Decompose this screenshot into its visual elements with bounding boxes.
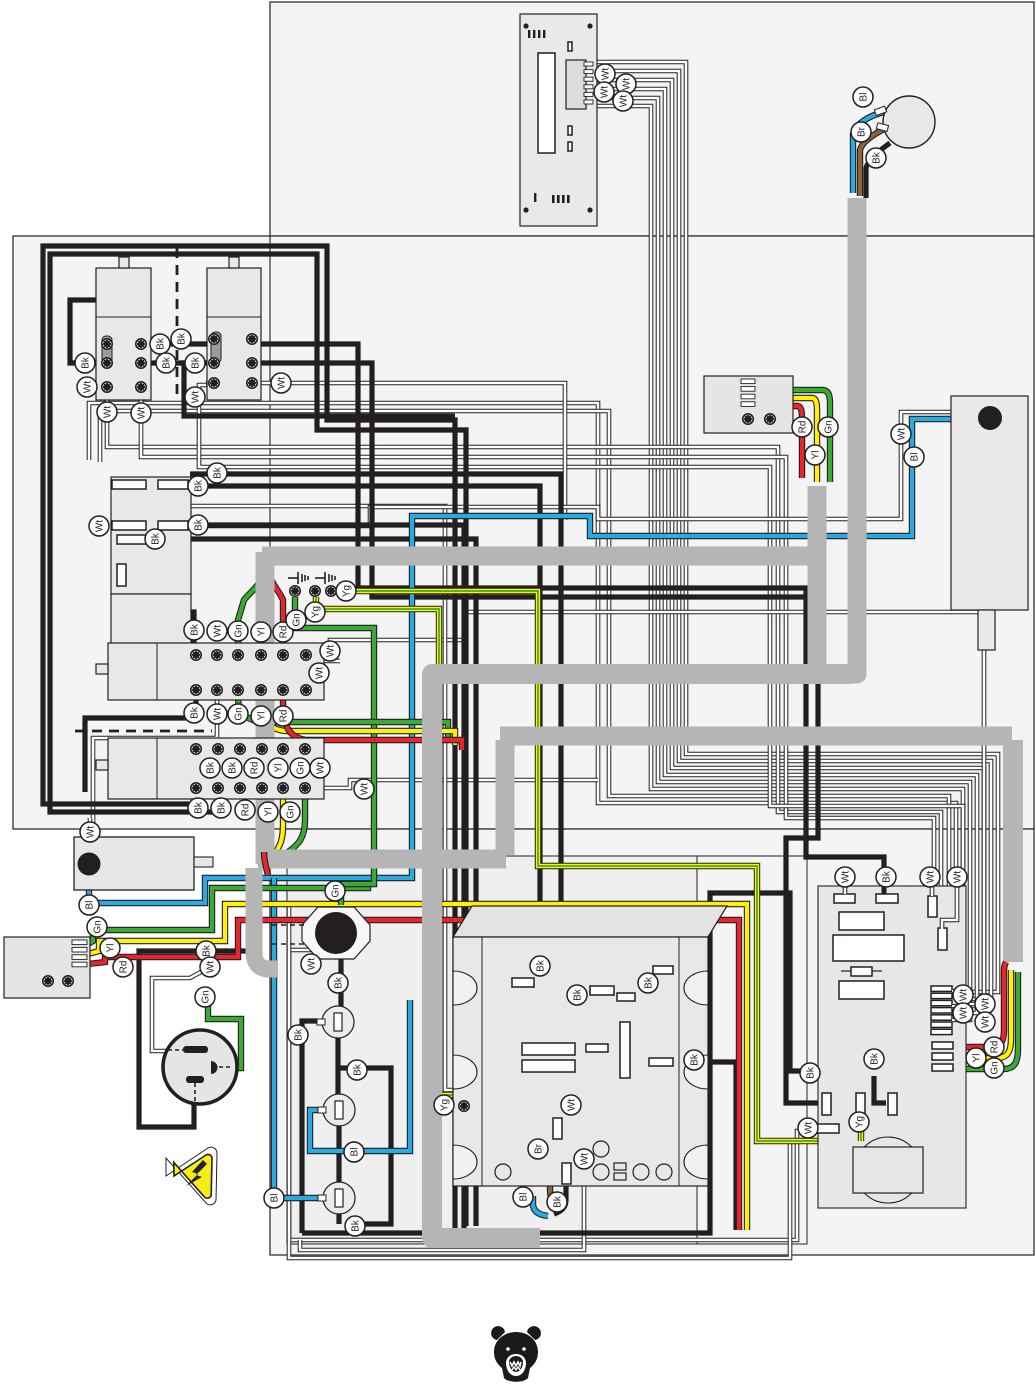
svg-text:Yg: Yg: [310, 606, 321, 618]
gray cable V1 left vertical: [256, 552, 275, 864]
svg-text:Bl: Bl: [858, 93, 869, 102]
power board pin mid: [888, 1093, 897, 1115]
strip terminal 2: [310, 586, 320, 596]
gray cable H1 horizontal: [262, 547, 812, 566]
lamp L3: [323, 1182, 355, 1214]
svg-text:Bk: Bk: [193, 479, 204, 492]
green wire timer2 link: [302, 753, 308, 784]
svg-text:Br: Br: [856, 126, 867, 137]
capacitor symbol 2: [315, 572, 335, 584]
black wire relay Ra left hook: [70, 300, 107, 363]
svg-text:Bk: Bk: [689, 1053, 700, 1066]
power board wt left wire: [800, 1126, 816, 1131]
relay R-b body: [207, 268, 261, 400]
control board small slot 1: [568, 42, 572, 51]
svg-text:Bk: Bk: [333, 976, 344, 989]
timer T1 terminal bottom 6: [301, 685, 311, 695]
drive motor box stub: [194, 857, 213, 867]
relay R-a body: [96, 268, 151, 400]
control board small slot 3: [568, 142, 572, 151]
relay R-b slot: [211, 332, 221, 363]
svg-text:Gn: Gn: [233, 624, 244, 637]
svg-text:Wt: Wt: [82, 381, 93, 393]
red wire timer2 down to cable: [262, 792, 264, 852]
power board white stub bk: [882, 879, 887, 894]
white wire from control board pin 5: [592, 98, 970, 1020]
svg-text:Bk: Bk: [572, 988, 583, 1001]
svg-text:Bk: Bk: [227, 761, 238, 774]
control board bottom ticks: [552, 195, 555, 203]
motor blue lead: [853, 112, 884, 193]
black wire relay Rb lower: [206, 380, 214, 385]
control board big slot: [538, 53, 555, 153]
motor black lead: [866, 143, 890, 198]
svg-text:Br: Br: [533, 1143, 544, 1154]
svg-text:Wt: Wt: [952, 871, 963, 883]
svg-text:Wt: Wt: [803, 1122, 814, 1134]
white wire hexagon to bottom loop then PCB pin: [289, 950, 820, 1240]
connector CN3 pins: [72, 940, 87, 945]
dryer box scallop right 2: [684, 1055, 708, 1089]
svg-text:Rd: Rd: [278, 710, 289, 723]
dryer terminal bar d: [653, 966, 673, 974]
svg-text:Wt: Wt: [840, 871, 851, 883]
timer T1 terminal bottom 1: [191, 685, 201, 695]
region divider x=270: [269, 236, 271, 829]
control board screw 1: [523, 23, 528, 28]
dryer circle 1: [593, 1141, 609, 1157]
dryer terminal bar a: [512, 978, 534, 987]
timer T1 terminal top 3: [233, 650, 243, 660]
timer T2 left stub: [96, 760, 108, 770]
control board tick marks: [528, 30, 530, 38]
green wire plug: [208, 990, 241, 1068]
timer T2 terminal bottom 5: [278, 783, 288, 793]
timer T2 terminal bottom 2: [213, 783, 223, 793]
svg-text:Bl: Bl: [269, 1194, 280, 1203]
red wire fan v4: [1004, 962, 1006, 970]
gray cable elbow to motor: [813, 198, 857, 674]
svg-text:Gn: Gn: [989, 1061, 1000, 1074]
yellow-green wire B to dryer terminal: [316, 597, 458, 1095]
power board rect 2: [833, 935, 904, 961]
svg-text:Rd: Rd: [240, 804, 251, 817]
lamp L2 stub: [318, 1107, 326, 1113]
white wire t1 right lower: [306, 661, 340, 690]
dryer box front face: [453, 937, 708, 1186]
power board connector strip lower: [932, 1042, 953, 1049]
svg-text:Gn: Gn: [823, 420, 834, 433]
gray cable H-mid to V6: [432, 674, 852, 1238]
svg-text:Gn: Gn: [330, 884, 341, 897]
timer T2 terminal bottom 1: [191, 783, 201, 793]
power plug dash right: [219, 1066, 233, 1068]
timer T1 terminal top 2: [212, 650, 222, 660]
power board yg pin wire: [858, 1115, 864, 1141]
timer T2 body: [108, 738, 324, 799]
dryer box inner right line: [678, 937, 680, 1186]
white wire relay Ra coil: [107, 392, 941, 1020]
power board pin left 2: [856, 1093, 865, 1115]
red wire fan into cable V1: [264, 852, 268, 875]
white wire t1 right upper: [306, 612, 984, 1004]
timer T1 left stub: [96, 664, 108, 674]
control board bottom tick: [534, 193, 536, 202]
power board wt wire 2: [930, 887, 935, 896]
svg-text:Bk: Bk: [176, 332, 187, 345]
svg-text:Bk: Bk: [150, 532, 161, 545]
white wire from control board pin 4: [592, 89, 977, 1013]
relay R-b terminal 3: [209, 358, 219, 368]
lamp L3 stub: [318, 1195, 326, 1201]
control board screw 3: [523, 207, 528, 212]
svg-text:Bk: Bk: [205, 761, 216, 774]
white wire timer1 bottom to motor box: [93, 690, 217, 834]
dryer bottom circle 1: [495, 1164, 511, 1180]
relay R-a terminal 3: [102, 358, 112, 368]
connector CN3 terminal 1: [43, 976, 53, 986]
lamp L2: [323, 1094, 355, 1126]
strip terminal 3: [326, 586, 336, 596]
svg-text:Wt: Wt: [102, 406, 113, 418]
power plug dash left: [168, 1049, 183, 1051]
timer T2 terminal bottom 6: [300, 783, 310, 793]
red wire PCB strip: [950, 970, 1004, 1047]
timer T1 terminal bottom 3: [233, 685, 243, 695]
switch lower body: [111, 594, 191, 660]
svg-text:Bk: Bk: [193, 801, 204, 814]
svg-text:Wt: Wt: [306, 958, 317, 970]
black wire relay Ra to PCB bar: [141, 344, 884, 899]
relay R-a divider: [96, 316, 151, 318]
black wire lamp1 to lamp2: [335, 1036, 340, 1094]
dryer box scallop left 3: [453, 1145, 477, 1179]
white wire relay Rb right: [252, 383, 565, 520]
power plug body: [163, 1030, 237, 1104]
green wire strip to hexagon: [295, 597, 374, 905]
svg-text:Gn: Gn: [92, 920, 103, 933]
svg-text:Gn: Gn: [285, 805, 296, 818]
black wire switch top to dryer bar b: [190, 474, 592, 990]
black wire dryer box inner top: [528, 940, 533, 983]
blue wire branch to lamp3: [274, 878, 323, 1198]
svg-text:Yg: Yg: [439, 1099, 450, 1111]
yellow wire connector staircase: [88, 904, 747, 1230]
timer T1 terminal bottom 5: [278, 685, 288, 695]
timer T1 divider: [156, 643, 158, 700]
power board black jog: [874, 1076, 886, 1103]
red wire timer1 fan: [268, 572, 283, 648]
svg-text:Bk: Bk: [869, 1052, 880, 1065]
lamp L1 stub: [317, 1019, 325, 1025]
timer T1 terminal bottom 4: [256, 685, 266, 695]
dryer bottom circle 2: [593, 1164, 609, 1180]
green wire connector to hexagon staircase: [88, 884, 368, 944]
green wire timer1 fan: [238, 572, 262, 648]
relay R-b terminal 1: [209, 334, 219, 344]
svg-text:Gn: Gn: [233, 707, 244, 720]
motor lead stub 1: [874, 106, 886, 115]
svg-text:Yl: Yl: [273, 764, 284, 773]
power board rect 1: [839, 912, 884, 930]
region box bottom: [270, 829, 1034, 1255]
timer T2 terminal bottom 4: [257, 783, 267, 793]
dryer terminal bar b: [590, 986, 614, 995]
connector CN4 body: [704, 376, 793, 433]
black wire timer1 top left: [152, 568, 194, 655]
power plug dash bottom: [194, 1083, 196, 1103]
power board resistor: [841, 967, 882, 976]
rear thermostat dot: [978, 406, 1002, 430]
svg-text:Wt: Wt: [85, 826, 96, 838]
white wire loop from relay area 2: [100, 411, 949, 1027]
svg-text:Wt: Wt: [980, 1016, 991, 1028]
black wire big loop B: [50, 254, 466, 1226]
black wire lamp1 left down: [302, 1021, 317, 1233]
svg-text:Wt: Wt: [980, 998, 991, 1010]
gray cable V5: [496, 740, 515, 855]
relay R-a slot: [102, 336, 112, 367]
blue wire main: [89, 419, 978, 903]
svg-text:Bk: Bk: [552, 1195, 563, 1208]
relay R-a terminal 5: [102, 382, 112, 392]
white wire relay Rb: [199, 385, 963, 1041]
dryer bottom circle 3: [633, 1164, 649, 1180]
svg-text:Wt: Wt: [136, 407, 147, 419]
white wire from control board pin 2: [592, 71, 991, 999]
svg-text:Bk: Bk: [871, 151, 882, 164]
black wire bottom run to PCB pins: [302, 893, 822, 1233]
black wire plug: [139, 928, 252, 1127]
relay R-a terminal 1: [102, 339, 112, 349]
black wire switch bottom long down: [148, 539, 476, 1226]
relay R-b terminal 2: [247, 334, 257, 344]
timer T1 terminal top 5: [278, 650, 288, 660]
control board screw 4: [587, 207, 592, 212]
svg-text:Wt: Wt: [566, 1099, 577, 1111]
svg-text:Bk: Bk: [350, 1219, 361, 1232]
relay R-a terminal 2: [136, 339, 146, 349]
relay R-b terminal 4: [247, 358, 257, 368]
svg-text:Gn: Gn: [200, 990, 211, 1003]
svg-text:Wt: Wt: [599, 86, 610, 98]
connector CN3 body: [4, 937, 90, 998]
relay R-b terminal 5: [209, 378, 219, 388]
black wire lamp2 to lamp3: [336, 1126, 341, 1182]
control board screw 2: [587, 23, 592, 28]
black wire hexagon to lamp1: [338, 957, 343, 1008]
yellow wire timer2 link: [280, 753, 286, 784]
timer T1 terminal bottom 2: [212, 685, 222, 695]
white wire loop from relay area 1: [89, 403, 956, 1034]
dryer small bar: [586, 1044, 608, 1052]
green wire timer1 bottom: [238, 662, 448, 740]
timer T2 terminal top 3: [235, 744, 245, 754]
power board body: [818, 886, 966, 1208]
white wire t2 right: [307, 780, 598, 788]
timer T2 terminal top 5: [278, 744, 288, 754]
white wire from control board pin 1: [592, 62, 998, 992]
gray cable stub to igniter area: [254, 868, 278, 969]
yellow wire timer1 fan: [261, 572, 265, 648]
black wire relay Rb left: [184, 363, 455, 416]
timer T2 terminal top 2: [213, 744, 223, 754]
yellow wire cn4: [790, 398, 817, 482]
white wire from control board pin 3: [592, 80, 984, 1006]
svg-text:Wt: Wt: [621, 78, 632, 90]
svg-text:Bk: Bk: [293, 1028, 304, 1041]
switch bottom stub bar: [117, 564, 126, 586]
switch bar top-right: [158, 480, 188, 489]
warning triangle: [166, 1147, 217, 1205]
svg-text:Gn: Gn: [291, 613, 302, 626]
gray cable H3: [500, 727, 1012, 746]
power board motor symbol: [853, 1137, 923, 1203]
connector CN3 terminal 2: [63, 976, 73, 986]
connector CN4 pins: [741, 379, 755, 384]
drive motor white stub: [88, 818, 93, 836]
hexagon dashes: [272, 925, 308, 944]
timer T1 body: [108, 643, 324, 700]
connector CN4 terminal 2: [765, 414, 775, 424]
blue wire lamp2 loop: [310, 1000, 410, 1151]
motor brown lead: [860, 128, 886, 196]
power board bar 2: [876, 894, 898, 903]
svg-text:Bk: Bk: [881, 870, 892, 883]
dryer box inner left line: [481, 937, 483, 1186]
svg-text:Bk: Bk: [189, 623, 200, 636]
svg-text:Rd: Rd: [118, 961, 129, 974]
svg-text:Bk: Bk: [535, 959, 546, 972]
brown wire dryer box: [550, 1138, 560, 1208]
svg-text:Yl: Yl: [971, 1054, 982, 1063]
relay R-a terminal 6: [136, 382, 146, 392]
white wire dryer box lower loop: [300, 1145, 584, 1250]
power board pin left 1: [822, 1093, 831, 1115]
svg-text:Wt: Wt: [359, 783, 370, 795]
white wire to dryer thermostat: [148, 506, 566, 1118]
dashed divider between relays: [176, 248, 179, 400]
svg-text:Wt: Wt: [315, 762, 326, 774]
svg-text:Bk: Bk: [155, 337, 166, 350]
svg-text:Wt: Wt: [276, 377, 287, 389]
dryer terminal bar c: [617, 993, 635, 1001]
white wire from control board pin 6: [592, 106, 963, 1027]
timer T2 terminal top 6: [300, 744, 310, 754]
red wire timer1 bottom: [283, 662, 462, 750]
svg-text:Rd: Rd: [797, 421, 808, 434]
svg-text:Yg: Yg: [341, 585, 352, 597]
svg-text:Yl: Yl: [256, 628, 267, 637]
yellow-green wire A to PCB: [346, 591, 853, 1141]
power board rect 3: [839, 981, 884, 999]
control board body: [520, 14, 597, 226]
svg-text:Bk: Bk: [216, 801, 227, 814]
inner panel for lamps: [287, 856, 697, 1244]
timer T2 terminal top 4: [257, 744, 267, 754]
power board pin stepped: [938, 928, 947, 950]
svg-text:Bk: Bk: [212, 466, 223, 479]
white wire relay Ra coil 2: [141, 392, 934, 1013]
black wire switch mid long down: [190, 525, 464, 1232]
svg-text:Wt: Wt: [579, 1153, 590, 1165]
dryer bottom circle 4: [656, 1164, 672, 1180]
power plug slot bottom: [186, 1076, 204, 1083]
svg-text:Bk: Bk: [190, 356, 201, 369]
dashed divider above timer2: [75, 730, 212, 733]
svg-text:Rd: Rd: [989, 1041, 1000, 1054]
svg-text:Gn: Gn: [295, 761, 306, 774]
red wire cn4: [790, 406, 802, 478]
green wire PCB strip: [950, 972, 1018, 1069]
black wire lamp3 stub: [336, 1212, 341, 1224]
bear logo: [491, 1326, 541, 1382]
dryer box scallop right 1: [684, 971, 708, 1005]
svg-text:Wt: Wt: [94, 520, 105, 532]
switch bar bottom: [117, 535, 148, 544]
black wire dryer box right side: [671, 1062, 736, 1230]
svg-text:Wt: Wt: [314, 667, 325, 679]
white wire switch box bottom stub: [119, 548, 124, 566]
dryer bottom squares: [614, 1163, 626, 1180]
power board strip wt jogs: [952, 991, 962, 1020]
svg-text:Yl: Yl: [810, 451, 821, 460]
blue wire dryer box stub: [533, 1196, 548, 1216]
black wire lamp branch right: [338, 1068, 391, 1224]
white wire bottom outer loop: [289, 905, 790, 1258]
rear thermostat bottom stub: [978, 610, 995, 650]
inner sub-box border bottom: [287, 856, 807, 1244]
svg-text:Yg: Yg: [854, 1116, 865, 1128]
rear thermostat body: [951, 396, 1028, 610]
power board bar 1: [834, 894, 855, 903]
dryer tall bar: [620, 1022, 630, 1078]
timer T1 terminal top 6: [301, 650, 311, 660]
yellow wire timer1 bottom: [261, 662, 455, 745]
timer T1 terminal top 1: [191, 650, 201, 660]
svg-text:Bk: Bk: [189, 706, 200, 719]
power plug ground pin: [211, 1061, 218, 1074]
control board small slot 2: [568, 126, 572, 135]
red wire timer2 link: [259, 753, 265, 784]
svg-text:Bk: Bk: [161, 356, 172, 369]
svg-text:Bl: Bl: [349, 1148, 360, 1157]
gray cable V4 to PCB: [1003, 740, 1023, 962]
green wire timer2 down to cable: [288, 792, 305, 852]
yellow wire PCB strip: [950, 970, 1011, 1058]
timer T2 terminal bottom 3: [235, 783, 245, 793]
region box top: [270, 2, 1034, 236]
power board pin tall: [928, 896, 937, 917]
black wire motor fan inner: [565, 940, 592, 990]
dryer box scallop left 1: [453, 971, 477, 1005]
svg-text:Wt: Wt: [958, 989, 969, 1001]
svg-text:Wt: Wt: [925, 871, 936, 883]
timer T1 terminal top 4: [256, 650, 266, 660]
switch bar top-left: [112, 480, 146, 489]
svg-text:Bl: Bl: [84, 901, 95, 910]
svg-text:Wt: Wt: [190, 391, 201, 403]
svg-text:Bk: Bk: [805, 1066, 816, 1079]
drive motor box: [74, 837, 194, 890]
dryer box scallop left 2: [453, 1055, 477, 1089]
strip terminal 1: [290, 586, 300, 596]
dryer pin bar 1: [553, 1118, 562, 1139]
svg-text:Wt: Wt: [212, 625, 223, 637]
svg-text:Rd: Rd: [249, 762, 260, 775]
power board wt wire 3: [942, 887, 957, 929]
black wire timer1 bottom left: [85, 690, 196, 792]
